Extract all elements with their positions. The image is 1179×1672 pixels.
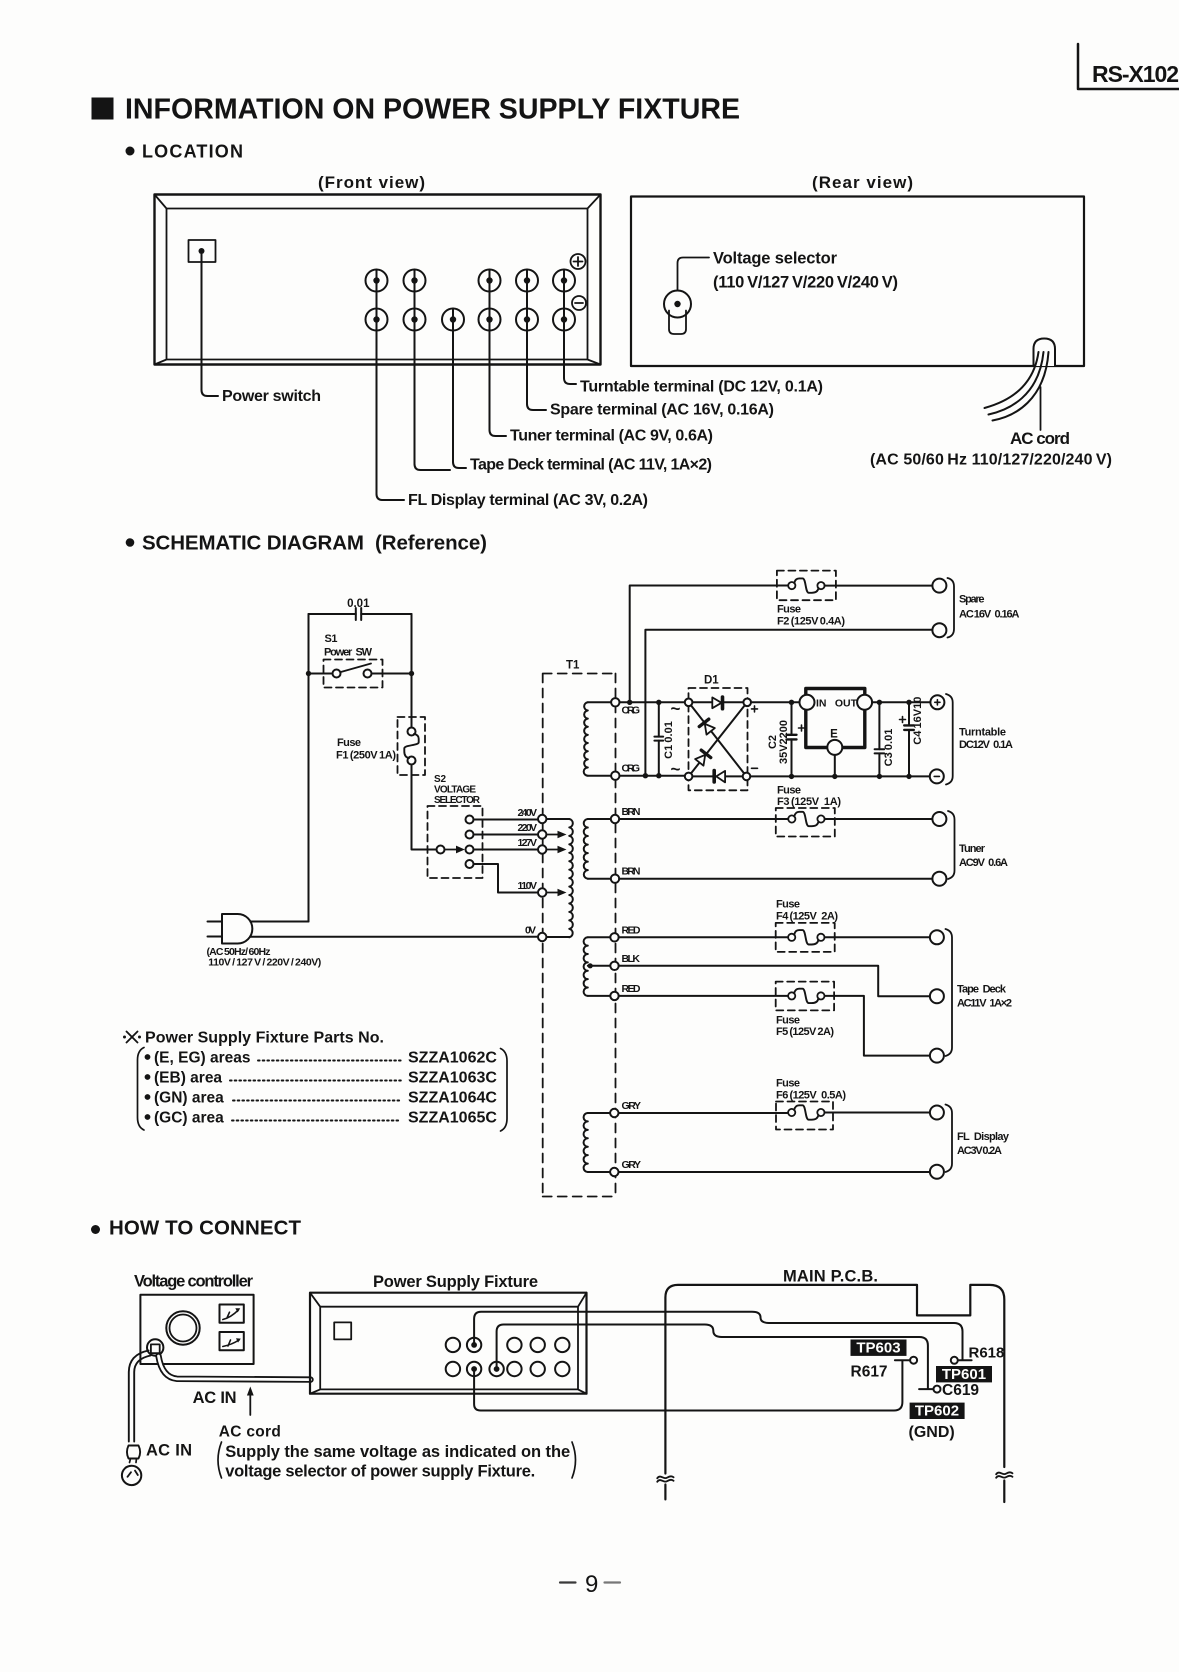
spare bracket bbox=[948, 578, 955, 638]
leader tuner bbox=[490, 430, 507, 436]
title block marker bbox=[92, 98, 114, 120]
label minus bbox=[752, 767, 758, 769]
fixture terminals row2 bbox=[446, 1362, 570, 1376]
terminal column lines bbox=[377, 281, 565, 495]
svg-text:R618: R618 bbox=[969, 1345, 1005, 1362]
pin IN bbox=[800, 695, 815, 710]
svg-text:INFORMATION ON POWER SUPPLY FI: INFORMATION ON POWER SUPPLY FIXTURE bbox=[125, 94, 740, 126]
svg-text:(E, EG) areas: (E, EG) areas bbox=[154, 1049, 251, 1066]
fuse F2 bbox=[777, 571, 933, 628]
svg-text:35V2200: 35V2200 bbox=[778, 720, 790, 764]
reference mark bbox=[123, 1032, 141, 1043]
svg-text:Supply the same voltage as ind: Supply the same voltage as indicated on … bbox=[225, 1443, 570, 1461]
svg-text:Power SW: Power SW bbox=[324, 647, 373, 659]
svg-text:AC IN: AC IN bbox=[146, 1442, 192, 1460]
svg-text:220V: 220V bbox=[518, 822, 538, 834]
item EB bbox=[145, 1074, 151, 1080]
terminals bottom row bbox=[366, 309, 576, 331]
DC rail bottom bbox=[750, 775, 930, 777]
connected terminal dots bbox=[471, 1342, 477, 1348]
TP602 tag bbox=[910, 1403, 965, 1419]
item GN bbox=[145, 1094, 151, 1100]
voltage controller box bbox=[140, 1295, 253, 1364]
svg-text:Fuse: Fuse bbox=[776, 1015, 800, 1027]
LOCATION heading bbox=[126, 147, 135, 156]
svg-text:AC cord: AC cord bbox=[219, 1424, 281, 1441]
primary tap arrows bbox=[546, 835, 558, 893]
wire ORG top to bridge bbox=[620, 701, 685, 703]
wire ORG bottom to bridge bbox=[620, 775, 685, 777]
schematic heading bbox=[126, 538, 135, 547]
section heading bbox=[91, 1225, 100, 1234]
node D1 AC2 bbox=[685, 773, 693, 781]
T1 secondary terminals bbox=[610, 698, 619, 1176]
list bracket left bbox=[138, 1048, 145, 1131]
svg-text:(AC 50/60 Hz 110/127/220/240 V: (AC 50/60 Hz 110/127/220/240 V) bbox=[870, 452, 1112, 469]
svg-text:Fuse: Fuse bbox=[337, 737, 361, 749]
fuse F3 bbox=[776, 785, 842, 837]
svg-text:IN: IN bbox=[816, 698, 827, 710]
svg-text:FL Display terminal (AC 3V, 0.: FL Display terminal (AC 3V, 0.2A) bbox=[408, 492, 648, 509]
transformer T1 dashed box bbox=[543, 674, 616, 1197]
svg-text:(Front view): (Front view) bbox=[318, 173, 425, 192]
AC plug bbox=[207, 914, 322, 968]
svg-text:SELECTOR: SELECTOR bbox=[434, 795, 481, 806]
svg-text:SZZA1063C: SZZA1063C bbox=[408, 1069, 497, 1086]
svg-text:F1 (250V 1A): F1 (250V 1A) bbox=[336, 750, 396, 762]
fixture terminals row1 bbox=[446, 1338, 570, 1352]
regulator IC1 bbox=[800, 689, 873, 780]
DC rail top bbox=[751, 701, 800, 703]
svg-text:Fuse: Fuse bbox=[777, 785, 801, 797]
wire right vertical to fuse bbox=[411, 614, 413, 728]
svg-text:110V / 127 V / 220V / 240V): 110V / 127 V / 220V / 240V) bbox=[208, 956, 321, 968]
diode bridge D1 bbox=[685, 675, 758, 791]
svg-text:0.01: 0.01 bbox=[347, 598, 370, 610]
svg-text:F2 (125V 0.4A): F2 (125V 0.4A) bbox=[777, 616, 845, 628]
svg-text:RED: RED bbox=[622, 924, 641, 936]
wire F1 to selector pole bbox=[412, 765, 437, 850]
node D1 plus bbox=[743, 699, 751, 707]
svg-text:TP602: TP602 bbox=[915, 1403, 959, 1420]
arrow to cord bbox=[249, 1393, 251, 1415]
wire D1 top rail bbox=[692, 701, 743, 703]
fl display bracket bbox=[946, 1105, 953, 1173]
svg-text:Spare: Spare bbox=[959, 594, 985, 606]
main pcb outline bbox=[665, 1285, 1004, 1474]
wire fixture to R618 bbox=[474, 1312, 971, 1361]
voltage selector keyhole bbox=[664, 291, 691, 318]
svg-text:S1: S1 bbox=[325, 633, 338, 645]
tape deck bracket bbox=[946, 929, 953, 1056]
svg-text:voltage selector of power supp: voltage selector of power supply Fixture… bbox=[225, 1463, 535, 1481]
tuner terminals bbox=[932, 812, 946, 826]
svg-text:Tape Deck: Tape Deck bbox=[957, 984, 1007, 996]
svg-text:~: ~ bbox=[671, 699, 681, 718]
rear panel box bbox=[631, 197, 1084, 367]
wall plug bbox=[127, 1446, 140, 1459]
AC cord leader bbox=[1040, 387, 1042, 430]
diode D1d diagonal bbox=[695, 750, 711, 766]
item E EG bbox=[145, 1054, 151, 1060]
svg-text:9: 9 bbox=[585, 1571, 598, 1598]
svg-text:TP603: TP603 bbox=[856, 1340, 900, 1357]
switch S1 bbox=[309, 633, 412, 688]
wire D1 diagonal BL-TR bbox=[692, 706, 745, 773]
svg-text:FL Display: FL Display bbox=[957, 1131, 1010, 1143]
tape deck terminals bbox=[930, 930, 944, 944]
item GC bbox=[145, 1114, 151, 1120]
tap labels bbox=[518, 807, 538, 937]
wire plug to 0V bbox=[250, 936, 538, 938]
svg-text:S2: S2 bbox=[434, 774, 446, 785]
svg-text:AC IN: AC IN bbox=[193, 1389, 237, 1407]
svg-text:Power Supply Fixture Parts No.: Power Supply Fixture Parts No. bbox=[145, 1030, 384, 1047]
svg-text:F3 (125V 1A): F3 (125V 1A) bbox=[777, 796, 841, 808]
voltage selector leader bbox=[678, 258, 710, 291]
turntable bracket bbox=[946, 694, 953, 785]
svg-text:T1: T1 bbox=[566, 660, 580, 672]
svg-text:(GC) area: (GC) area bbox=[154, 1109, 224, 1126]
wire up to spare fuse bbox=[630, 586, 789, 703]
svg-text:F5 (125V 2A): F5 (125V 2A) bbox=[776, 1026, 834, 1038]
power switch bbox=[189, 240, 216, 262]
fuse F4 bbox=[776, 899, 839, 952]
polarity marks bbox=[571, 254, 586, 269]
svg-text:GRY: GRY bbox=[622, 1100, 642, 1112]
svg-text:Fuse: Fuse bbox=[776, 1078, 800, 1090]
capacitor C1 bbox=[654, 700, 675, 779]
svg-text:R617: R617 bbox=[851, 1364, 888, 1381]
fixture outer box bbox=[310, 1293, 587, 1394]
tuner bracket bbox=[948, 811, 955, 879]
svg-text:C619: C619 bbox=[942, 1382, 979, 1399]
node ORG top branch bbox=[627, 700, 632, 705]
fixture small square bbox=[334, 1322, 351, 1339]
T1 secondary BRN winding bbox=[588, 819, 615, 879]
break marks bbox=[657, 1476, 673, 1481]
pin E bbox=[827, 740, 842, 755]
cord controller to fixture (double line) bbox=[159, 1356, 311, 1380]
node D1 AC1 bbox=[685, 699, 693, 707]
svg-text:Fuse: Fuse bbox=[776, 899, 800, 911]
tape deck wires bbox=[619, 936, 930, 938]
svg-text:~: ~ bbox=[671, 760, 681, 779]
svg-text:F6 (125V 0.5A): F6 (125V 0.5A) bbox=[776, 1090, 846, 1102]
capacitor C2 bbox=[767, 700, 805, 780]
svg-text:(GND): (GND) bbox=[909, 1424, 955, 1441]
svg-text:Tuner: Tuner bbox=[959, 843, 986, 855]
svg-text:D1: D1 bbox=[704, 675, 719, 687]
svg-text:AC3V 0.2A: AC3V 0.2A bbox=[957, 1145, 1002, 1157]
svg-text:Power switch: Power switch bbox=[222, 388, 321, 405]
svg-text:DC12V 0.1A: DC12V 0.1A bbox=[959, 739, 1013, 751]
fl display terminals bbox=[930, 1106, 944, 1120]
svg-text:GRY: GRY bbox=[622, 1159, 642, 1171]
TP603 tag bbox=[851, 1340, 907, 1356]
ac inlet connector bbox=[147, 1339, 163, 1355]
svg-text:Power Supply Fixture: Power Supply Fixture bbox=[373, 1273, 538, 1291]
cord to wall plug (double line) bbox=[129, 1351, 149, 1442]
leader fl display bbox=[377, 494, 405, 500]
meter 2 bbox=[220, 1332, 244, 1350]
svg-text:0V: 0V bbox=[525, 925, 536, 937]
fixture bevel bbox=[310, 1293, 587, 1394]
AC cord wires bbox=[985, 352, 1049, 421]
terminal pass-through lines inside circles bbox=[377, 270, 565, 331]
tuner wires bbox=[619, 819, 932, 879]
wire top loop bbox=[309, 613, 412, 615]
T1 secondary GRY winding bbox=[588, 1113, 615, 1172]
svg-text:C4 16V10: C4 16V10 bbox=[912, 697, 924, 745]
wire D1 bottom rail bbox=[692, 775, 743, 777]
turntable terminals bbox=[930, 695, 944, 709]
svg-text:C3 0.01: C3 0.01 bbox=[883, 729, 895, 767]
svg-text:VOLTAGE: VOLTAGE bbox=[434, 785, 476, 796]
svg-text:BRN: BRN bbox=[622, 806, 641, 818]
diode D1b bottom bbox=[716, 771, 725, 783]
diode D1a top bbox=[712, 697, 721, 708]
wire fixture to R617 bbox=[474, 1360, 910, 1410]
svg-text:E: E bbox=[830, 729, 838, 741]
svg-text:(110 V/127 V/220 V/240 V): (110 V/127 V/220 V/240 V) bbox=[713, 274, 898, 292]
node spare lower on ORG bottom bbox=[643, 773, 648, 778]
svg-text:110V: 110V bbox=[518, 880, 538, 892]
selector contact wires bbox=[474, 820, 539, 893]
primary tap terminals bbox=[538, 815, 546, 941]
svg-text:TP601: TP601 bbox=[942, 1366, 986, 1383]
outlet face bbox=[122, 1466, 141, 1485]
capacitor C4 bbox=[900, 697, 925, 779]
svg-text:AC 16V 0.16A: AC 16V 0.16A bbox=[959, 608, 1020, 620]
wire plug to S1 branch bbox=[250, 921, 308, 923]
svg-text:ORG: ORG bbox=[622, 763, 641, 775]
wire D1 diagonal TL-BR bbox=[692, 706, 744, 773]
svg-text:Voltage selector: Voltage selector bbox=[713, 250, 838, 268]
node junction S1 right bbox=[409, 671, 414, 676]
fuse F1 bbox=[336, 717, 425, 775]
svg-text:RS-X102: RS-X102 bbox=[1092, 61, 1179, 87]
T1 secondary ORG winding bbox=[588, 702, 616, 775]
pin OUT bbox=[857, 695, 872, 710]
svg-text:LOCATION: LOCATION bbox=[142, 142, 243, 162]
svg-text:C1 0.01: C1 0.01 bbox=[663, 721, 675, 759]
leader spare bbox=[527, 404, 546, 410]
power switch leader bbox=[202, 254, 219, 396]
svg-text:SZZA1065C: SZZA1065C bbox=[408, 1109, 497, 1126]
svg-text:Tape Deck terminal (AC 11V, 1A: Tape Deck terminal (AC 11V, 1A×2) bbox=[470, 457, 712, 474]
svg-text:Tuner terminal (AC 9V, 0.6A): Tuner terminal (AC 9V, 0.6A) bbox=[510, 428, 713, 445]
svg-text:BLK: BLK bbox=[622, 953, 641, 965]
T1 primary winding bbox=[569, 819, 573, 937]
leader tape deck bbox=[415, 462, 467, 470]
fl display wires bbox=[619, 1113, 930, 1173]
wire left vertical bbox=[308, 614, 310, 922]
model tag box RS-X102 bbox=[1078, 44, 1179, 89]
diode D1c diagonal bbox=[699, 719, 715, 735]
list bracket right bbox=[501, 1049, 508, 1132]
svg-text:MAIN P.C.B.: MAIN P.C.B. bbox=[783, 1268, 878, 1286]
fuse F5 bbox=[776, 982, 835, 1038]
meter 1 bbox=[220, 1305, 244, 1323]
capacitor C3 bbox=[875, 700, 895, 780]
terminal center dots bbox=[373, 277, 567, 322]
svg-text:(Reference): (Reference) bbox=[375, 532, 487, 555]
wire spare lower bbox=[645, 630, 932, 776]
node junction S1 left bbox=[306, 671, 311, 676]
svg-text:(GN) area: (GN) area bbox=[154, 1089, 224, 1106]
wire fixture to C619 bbox=[497, 1325, 934, 1390]
svg-text:SZZA1064C: SZZA1064C bbox=[408, 1089, 497, 1106]
T1 secondary RED/BLK winding bbox=[588, 937, 615, 996]
svg-text:BRN: BRN bbox=[622, 866, 641, 878]
svg-text:SCHEMATIC DIAGRAM: SCHEMATIC DIAGRAM bbox=[142, 532, 364, 555]
label plus bbox=[752, 706, 758, 712]
svg-text:HOW TO CONNECT: HOW TO CONNECT bbox=[109, 1217, 301, 1240]
voltage selector S2 bbox=[428, 774, 483, 878]
node D1 minus bbox=[743, 773, 751, 781]
spare terminals bbox=[932, 579, 946, 593]
svg-text:SZZA1062C: SZZA1062C bbox=[408, 1049, 497, 1066]
TP601 tag bbox=[936, 1366, 992, 1382]
terminals top row bbox=[366, 270, 576, 292]
controller knob bbox=[166, 1311, 199, 1344]
winding lead labels bbox=[622, 705, 642, 1172]
svg-text:240V: 240V bbox=[518, 807, 538, 819]
leader turntable bbox=[564, 378, 576, 384]
svg-text:127V: 127V bbox=[518, 837, 538, 849]
svg-text:(Rear view): (Rear view) bbox=[812, 173, 913, 192]
svg-text:AC9V 0.6A: AC9V 0.6A bbox=[959, 857, 1008, 869]
svg-text:ORG: ORG bbox=[622, 705, 641, 717]
svg-text:RED: RED bbox=[622, 983, 641, 995]
svg-text:(EB) area: (EB) area bbox=[154, 1069, 222, 1086]
svg-text:Fuse: Fuse bbox=[777, 604, 801, 616]
svg-text:Turntable terminal (DC 12V, 0.: Turntable terminal (DC 12V, 0.1A) bbox=[580, 379, 823, 396]
primary top/bottom tap stubs bbox=[546, 819, 569, 937]
capacitor 0.01 plates bbox=[356, 608, 361, 620]
fuse F6 bbox=[776, 1078, 846, 1130]
svg-text:Voltage controller: Voltage controller bbox=[134, 1273, 254, 1291]
wire OUT to turntable bbox=[872, 701, 930, 703]
svg-text:F4 (125V 2A): F4 (125V 2A) bbox=[776, 911, 838, 923]
svg-text:Spare terminal (AC 16V, 0.16A): Spare terminal (AC 16V, 0.16A) bbox=[550, 402, 774, 419]
svg-text:AC cord: AC cord bbox=[1010, 429, 1070, 448]
AC cord gland bbox=[1034, 339, 1056, 367]
front panel bevel lines bbox=[155, 195, 601, 365]
svg-text:Turntable: Turntable bbox=[959, 727, 1006, 739]
front panel outer box bbox=[155, 195, 601, 365]
svg-text:AC11V 1A×2: AC11V 1A×2 bbox=[957, 998, 1012, 1010]
svg-text:OUT: OUT bbox=[835, 698, 858, 710]
